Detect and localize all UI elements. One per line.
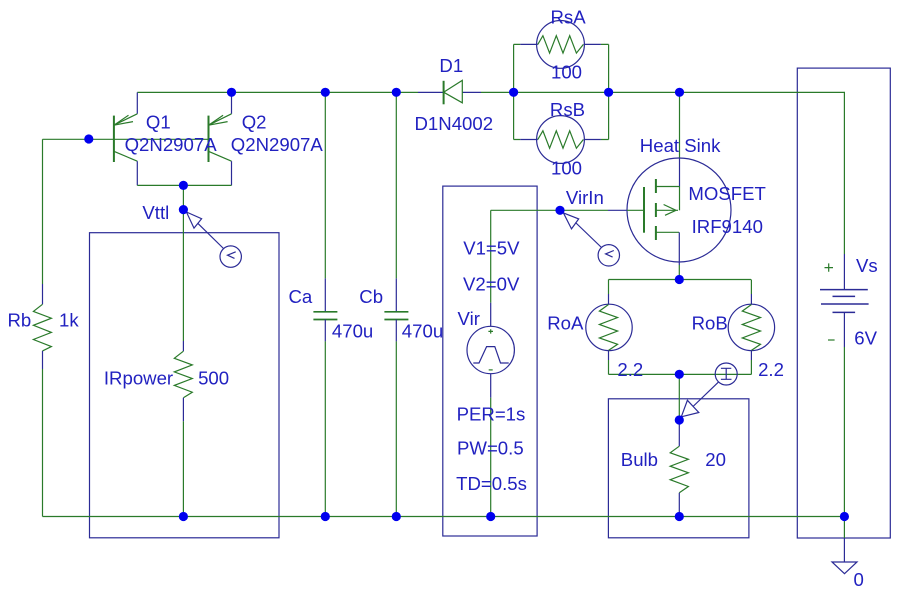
svg-text:100: 100 — [551, 61, 582, 82]
svg-text:500: 500 — [198, 368, 229, 389]
svg-text:PER=1s: PER=1s — [457, 404, 526, 425]
svg-text:D1N4002: D1N4002 — [415, 113, 494, 134]
svg-text:470u: 470u — [332, 321, 373, 342]
svg-text:Q2: Q2 — [242, 111, 267, 132]
svg-text:Vttl: Vttl — [142, 202, 169, 223]
svg-text:Cb: Cb — [359, 286, 383, 307]
svg-text:Vir: Vir — [458, 308, 480, 329]
svg-text:IRpower: IRpower — [104, 368, 173, 389]
svg-text:Rb: Rb — [8, 310, 32, 331]
svg-text:470u: 470u — [402, 321, 443, 342]
svg-text:100: 100 — [551, 158, 582, 179]
svg-text:Q2N2907A: Q2N2907A — [125, 134, 218, 155]
svg-text:RoA: RoA — [547, 313, 584, 334]
svg-text:1k: 1k — [59, 310, 79, 331]
svg-text:V1=5V: V1=5V — [463, 238, 520, 259]
svg-text:6V: 6V — [854, 328, 877, 349]
svg-text:PW=0.5: PW=0.5 — [457, 438, 524, 459]
svg-text:20: 20 — [705, 449, 726, 470]
svg-text:RoB: RoB — [692, 313, 728, 334]
svg-text:IRF9140: IRF9140 — [692, 216, 763, 237]
svg-text:Heat Sink: Heat Sink — [640, 135, 721, 156]
svg-text:V2=0V: V2=0V — [463, 274, 520, 295]
svg-text:D1: D1 — [439, 55, 463, 76]
svg-text:Vs: Vs — [856, 255, 878, 276]
svg-text:Q1: Q1 — [146, 111, 171, 132]
svg-text:Ca: Ca — [289, 286, 313, 307]
svg-text:0: 0 — [854, 569, 864, 590]
svg-text:Bulb: Bulb — [621, 449, 658, 470]
svg-text:RsA: RsA — [551, 7, 587, 28]
svg-text:MOSFET: MOSFET — [688, 183, 765, 204]
svg-text:VirIn: VirIn — [566, 187, 604, 208]
svg-text:2.2: 2.2 — [758, 359, 784, 380]
svg-text:Q2N2907A: Q2N2907A — [231, 134, 324, 155]
svg-text:2.2: 2.2 — [617, 359, 643, 380]
svg-text:RsB: RsB — [550, 99, 585, 120]
svg-text:TD=0.5s: TD=0.5s — [456, 473, 527, 494]
